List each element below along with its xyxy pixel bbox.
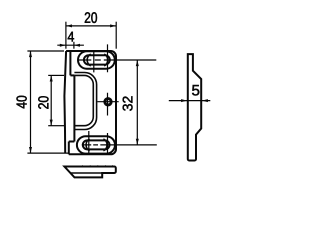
bottom view internal edge (70, 172, 102, 174)
bottom slot inner obround (83, 140, 110, 149)
bottom view outline (64, 167, 115, 178)
dim 40 text (16, 96, 26, 109)
dim 4 right arrow (74, 44, 80, 47)
front view plate outline (66, 51, 116, 154)
dim 4 text (68, 32, 74, 42)
dim 40 line (30, 51, 32, 153)
top slot outer obround (78, 51, 115, 68)
top slot centerline (79, 59, 156, 61)
dim 20 left top extension (48, 74, 64, 76)
hole circle (105, 99, 111, 105)
lip inner edge bottom (68, 142, 70, 155)
vertical centerline (107, 44, 109, 153)
bottom slot crossing line (88, 131, 90, 154)
dim 20 top left extension (65, 22, 67, 49)
lip step lower (69, 141, 75, 143)
dim 20 left top arrow (50, 75, 53, 81)
dim 5 text (192, 85, 199, 96)
dim 20 top right arrow (110, 24, 116, 27)
dim 4 left arrow (60, 44, 66, 47)
dim 40 top extension (27, 50, 64, 52)
hole horizontal centerline (97, 101, 118, 103)
dim 32 bottom arrow (136, 139, 139, 145)
dim 5 right arrow (202, 99, 208, 102)
dim 20 top line (66, 25, 116, 27)
dim 40 bottom arrow (29, 147, 32, 153)
bottom view serration ticks (81, 165, 114, 167)
top slot right end arc (104, 54, 108, 66)
dim 20 top left arrow (66, 24, 72, 27)
dim 20 left line (50, 75, 52, 125)
dim 5 line (169, 100, 211, 102)
dim 32 line (136, 60, 138, 145)
dim 4 right extension (73, 42, 75, 49)
lip inner edge middle (73, 75, 75, 141)
top slot crossing line (93, 51, 95, 72)
bottom slot centerline (82, 144, 157, 146)
bottom slot outer obround (77, 136, 115, 153)
pocket inner contour (74, 75, 93, 125)
bottom slot left end arc (86, 139, 90, 151)
dim 20 top right extension (115, 22, 117, 49)
pocket outer contour (74, 73, 96, 130)
dim 20 left text (38, 96, 48, 109)
side view outline (188, 54, 201, 160)
dim 4 line (57, 44, 84, 46)
dim 32 top arrow (136, 60, 139, 66)
top slot inner obround (84, 55, 110, 64)
lip step upper (70, 74, 74, 76)
dim 5 left arrow (181, 99, 187, 102)
dim 20 left bottom extension (48, 125, 64, 127)
plate left edge (64, 51, 66, 153)
dim 20 top text (85, 12, 97, 23)
dim 40 bottom extension (27, 152, 68, 154)
top slot left end arc (87, 54, 91, 66)
dim 32 text (123, 96, 133, 110)
dim 20 left bottom arrow (50, 120, 53, 126)
lip inner edge upper (69, 51, 71, 75)
bottom slot right end arc (103, 139, 107, 151)
dim 40 top arrow (29, 51, 32, 57)
